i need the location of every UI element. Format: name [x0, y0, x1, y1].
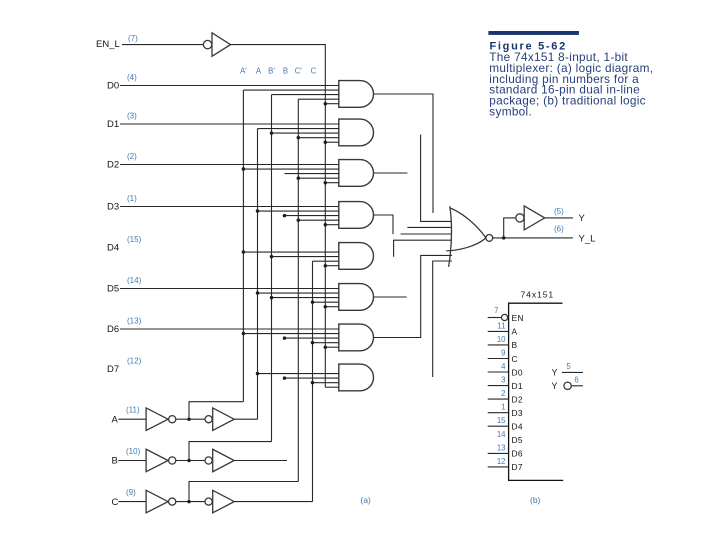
- svg-text:13: 13: [497, 443, 506, 452]
- svg-text:(a): (a): [361, 495, 372, 505]
- svg-text:D1: D1: [107, 119, 119, 130]
- junction on rail x=298.3 gate 3: [297, 218, 301, 222]
- symbol pin 1 stub: [488, 412, 509, 414]
- symbol pin 10 stub: [488, 344, 509, 346]
- svg-text:Y_L: Y_L: [579, 234, 596, 245]
- wire D6 to AND gate: [120, 328, 339, 330]
- inverter C1: [146, 490, 168, 512]
- symbol pin 11 stub: [488, 330, 509, 332]
- wire U5 entry to NOR input 4: [401, 233, 453, 235]
- symbol pin 9 stub: [488, 358, 509, 360]
- inverter U1 input bubble: [203, 40, 211, 48]
- figure heading bar: [488, 31, 579, 35]
- svg-text:C: C: [512, 354, 518, 364]
- svg-text:Y: Y: [552, 367, 558, 377]
- svg-text:(3): (3): [127, 112, 137, 121]
- buffer C2 input bubble: [205, 498, 212, 505]
- buffer B2: [213, 449, 235, 472]
- svg-text:Y: Y: [552, 381, 558, 391]
- wire select tap 1 to U6: [243, 251, 338, 253]
- svg-text:(4): (4): [127, 73, 137, 82]
- wire C true to rail: [234, 501, 312, 503]
- junction on rail x=284.5 gate 6: [283, 336, 287, 340]
- junction EN rail gate 4: [324, 264, 328, 268]
- buffer C2: [213, 490, 235, 512]
- wire select tap 1 to U3: [258, 128, 339, 130]
- junction EN rail gate 6: [324, 345, 328, 349]
- wire EN tap to U5: [325, 224, 339, 226]
- svg-text:14: 14: [497, 430, 506, 439]
- AND gate U5 (D3 term): [339, 202, 374, 229]
- junction EN rail gate 2: [324, 181, 328, 185]
- AND gate U8 (D6 term): [339, 324, 374, 351]
- wire A true to rail: [234, 418, 257, 420]
- junction EN rail gate 0: [324, 102, 328, 106]
- svg-text:(7): (7): [128, 34, 138, 43]
- svg-text:(15): (15): [127, 235, 142, 244]
- inverter B1: [146, 449, 168, 472]
- svg-text:B′: B′: [268, 67, 275, 76]
- symbol box (no right edge): [509, 303, 564, 480]
- svg-text:D3: D3: [107, 202, 119, 213]
- wire EN tap to U2: [325, 103, 339, 105]
- junction on rail x=243.4 gate 6: [242, 332, 246, 336]
- wire A&#8242; rail vertical: [242, 90, 244, 402]
- wire B input: [118, 460, 146, 462]
- wire A input: [118, 418, 146, 420]
- wire select tap 2 to U5: [285, 215, 339, 217]
- svg-text:7: 7: [494, 306, 498, 315]
- svg-text:EN_L: EN_L: [96, 39, 120, 50]
- wire EN rail (U1 out, right then down to AND gates): [231, 45, 326, 388]
- inverter A1: [146, 408, 168, 431]
- buffer B2 input bubble: [205, 457, 212, 464]
- junction on rail x=257.5 gate 3: [256, 209, 260, 213]
- symbol pin 15 stub: [488, 425, 509, 427]
- AND gate U4 (D2 term): [339, 160, 374, 187]
- wire select tap 3 to U5: [298, 219, 339, 221]
- junction on rail x=271.5 gate 4: [270, 255, 274, 259]
- inverter U11 input bubble: [516, 214, 524, 222]
- svg-text:(1): (1): [127, 194, 137, 203]
- wire U2 out (D0 term) right+down: [374, 94, 433, 213]
- svg-text:(b): (b): [530, 495, 541, 505]
- wire select tap 2 to U4: [285, 173, 339, 175]
- junction on rail x=257.5 gate 5: [256, 291, 260, 295]
- svg-text:2: 2: [501, 389, 505, 398]
- svg-text:A: A: [512, 327, 518, 337]
- junction on rail x=243.4 gate 4: [242, 250, 246, 254]
- svg-text:(2): (2): [127, 152, 137, 161]
- junction node C&#8242;: [187, 500, 191, 504]
- buffer A2 input bubble: [205, 416, 212, 423]
- wire C&#8242; riser to rail: [189, 482, 298, 502]
- wire branch up to inverter U11: [504, 218, 516, 238]
- NOR gate U10 body: [446, 208, 486, 251]
- wire select tap 1 to U5: [258, 210, 339, 212]
- wire D3 to AND gate: [120, 206, 339, 208]
- svg-text:symbol.: symbol.: [489, 104, 532, 118]
- wire U4 entry to NOR input 3: [407, 226, 452, 228]
- svg-text:D6: D6: [512, 449, 523, 459]
- junction EN rail gate 3: [324, 223, 328, 227]
- junction node Y_L: [502, 236, 506, 240]
- junction node B&#8242;: [187, 459, 191, 463]
- AND gate U2 (D0 term): [339, 81, 374, 108]
- svg-text:(10): (10): [126, 447, 141, 456]
- wire select tap 1 to U2: [243, 89, 338, 91]
- wire U11 out to Y: [545, 217, 573, 219]
- svg-text:(6): (6): [554, 225, 564, 234]
- svg-text:D7: D7: [512, 462, 523, 472]
- symbol pin 6 line: [571, 385, 583, 387]
- svg-text:9: 9: [501, 349, 505, 358]
- svg-text:A: A: [112, 414, 119, 425]
- symbol pin 5 line: [562, 371, 583, 373]
- wire B&#8242; node: [176, 460, 205, 462]
- wire B&#8242; riser to rail: [189, 442, 272, 461]
- wire D2 to AND gate: [120, 164, 339, 166]
- svg-text:3: 3: [501, 376, 505, 385]
- wire A&#8242; riser to rail: [189, 402, 243, 420]
- svg-text:5: 5: [566, 362, 571, 371]
- wire select tap 3 to U7: [313, 301, 339, 303]
- wire select tap 3 to U6: [313, 260, 339, 262]
- junction on rail x=271.5 gate 5: [270, 296, 274, 300]
- NOR gate U10 input edge arc: [449, 206, 452, 267]
- svg-text:D5: D5: [512, 435, 523, 445]
- svg-text:D5: D5: [107, 284, 119, 295]
- symbol Y_L bubble: [564, 382, 571, 389]
- wire select tap 2 to U9: [285, 377, 339, 379]
- wire U5 out (D3 term) right+down: [374, 215, 393, 234]
- wire U6 riser to NOR input 5: [394, 240, 452, 257]
- svg-text:(13): (13): [127, 317, 142, 326]
- inverter U11 (output buffer): [524, 206, 545, 230]
- junction on rail x=312.5 gate 6: [311, 341, 315, 345]
- junction on rail x=271.5 gate 1: [270, 131, 274, 135]
- junction on rail x=243.4 gate 2: [242, 167, 246, 171]
- svg-text:D0: D0: [512, 367, 523, 377]
- svg-text:A: A: [256, 67, 262, 76]
- wire D1 to AND gate: [120, 123, 339, 125]
- svg-text:10: 10: [497, 335, 506, 344]
- symbol pin 2 stub: [488, 398, 509, 400]
- svg-text:D1: D1: [512, 381, 523, 391]
- svg-text:(5): (5): [554, 207, 564, 216]
- wire select tap 3 to U3: [298, 137, 339, 139]
- junction on rail x=298.3 gate 2: [297, 176, 301, 180]
- wire U3 riser to NOR input 2: [421, 135, 452, 222]
- AND gate U9 (D7 term): [339, 364, 374, 391]
- svg-text:D0: D0: [107, 81, 119, 92]
- svg-text:(12): (12): [127, 357, 142, 366]
- wire EN tap to U9: [325, 386, 339, 388]
- junction on rail x=284.5 gate 7: [283, 376, 287, 380]
- AND gate U6 (D4 term): [339, 243, 374, 270]
- svg-text:74x151: 74x151: [521, 290, 555, 300]
- svg-text:D4: D4: [512, 422, 523, 432]
- wire C rail vertical: [312, 261, 314, 501]
- wire A rail vertical: [257, 129, 259, 420]
- inverter B1 output bubble: [169, 457, 176, 464]
- symbol pin 4 stub: [488, 371, 509, 373]
- svg-text:15: 15: [497, 416, 506, 425]
- wire select tap 1 to U8: [243, 333, 338, 335]
- wire U4 out stub (D2 term): [374, 172, 408, 174]
- svg-text:(9): (9): [126, 488, 136, 497]
- junction EN rail gate 5: [324, 305, 328, 309]
- wire B true stub: [234, 460, 287, 462]
- wire select tap 2 to U2: [272, 94, 339, 96]
- symbol pin 7 stub: [488, 317, 502, 319]
- wire EN_L input: [122, 44, 203, 46]
- wire select tap 1 to U4: [243, 168, 338, 170]
- wire select tap 2 to U6: [272, 256, 339, 258]
- symbol EN bubble: [502, 314, 508, 320]
- wire EN tap to U6: [325, 265, 339, 267]
- wire D5 to AND gate: [120, 288, 339, 290]
- wire C input: [118, 501, 146, 503]
- wire select tap 2 to U8: [285, 337, 339, 339]
- wire U7 out stub (D5 term): [374, 296, 407, 298]
- svg-text:D6: D6: [107, 324, 119, 335]
- svg-text:(11): (11): [126, 406, 140, 415]
- inverter A1 output bubble: [169, 416, 176, 423]
- svg-text:D2: D2: [512, 394, 523, 404]
- AND gate U3 (D1 term): [339, 119, 374, 146]
- AND gate U7 (D5 term): [339, 284, 374, 311]
- buffer A2: [213, 408, 235, 431]
- junction on rail x=284.5 gate 3: [283, 214, 287, 218]
- svg-text:D4: D4: [107, 243, 119, 254]
- junction on rail x=298.3 gate 1: [297, 136, 301, 140]
- wire B&#8242; rail vertical: [271, 95, 273, 442]
- inverter C1 output bubble: [169, 498, 176, 505]
- wire select tap 2 to U7: [272, 297, 339, 299]
- wire select tap 3 to U8: [313, 342, 339, 344]
- wire select tap 1 to U9: [258, 373, 339, 375]
- svg-text:B: B: [283, 67, 288, 76]
- wire select tap 3 to U4: [298, 177, 339, 179]
- inverter U1 (EN buffer): [212, 33, 231, 57]
- svg-text:Y: Y: [579, 213, 586, 224]
- wire EN tap to U7: [325, 306, 339, 308]
- svg-text:6: 6: [574, 376, 578, 385]
- svg-text:C: C: [311, 67, 317, 76]
- wire Y_L net (NOR out to Y_L): [493, 237, 573, 239]
- wire EN tap to U4: [325, 182, 339, 184]
- junction EN rail gate 1: [324, 140, 328, 144]
- svg-text:B: B: [512, 340, 518, 350]
- wire U9 riser to NOR input 8: [433, 261, 452, 377]
- junction node A&#8242;: [187, 417, 191, 421]
- svg-text:12: 12: [497, 457, 506, 466]
- svg-text:C′: C′: [295, 67, 303, 76]
- wire select tap 1 to U7: [258, 292, 339, 294]
- svg-text:1: 1: [501, 403, 505, 412]
- svg-text:(14): (14): [127, 276, 142, 285]
- wire select tap 2 to U3: [272, 132, 339, 134]
- wire C&#8242; node: [176, 501, 205, 503]
- wire D0 to AND gate: [120, 85, 339, 87]
- svg-text:D2: D2: [107, 160, 119, 171]
- svg-text:EN: EN: [512, 313, 524, 323]
- symbol pin 12 stub: [488, 466, 509, 468]
- wire U8 out (D6 term) right+up to NOR input 7: [374, 255, 452, 337]
- svg-text:A′: A′: [240, 67, 247, 76]
- symbol pin 13 stub: [488, 452, 509, 454]
- wire EN tap to U3: [325, 141, 339, 143]
- wire EN tap to U8: [325, 346, 339, 348]
- wire select tap 3 to U2: [298, 98, 339, 100]
- svg-text:B: B: [112, 456, 118, 467]
- wire select tap 3 to U9: [313, 382, 339, 384]
- svg-text:D3: D3: [512, 408, 523, 418]
- wire A&#8242; node: [176, 418, 205, 420]
- junction on rail x=257.5 gate 7: [256, 372, 260, 376]
- NOR gate U10 output bubble: [486, 235, 493, 242]
- junction on rail x=312.5 gate 7: [311, 381, 315, 385]
- junction on rail x=312.5 gate 5: [311, 300, 315, 304]
- wire C&#8242; rail vertical: [297, 99, 299, 481]
- svg-text:11: 11: [497, 321, 505, 330]
- svg-text:4: 4: [501, 362, 506, 371]
- svg-text:C: C: [112, 497, 119, 508]
- svg-text:D7: D7: [107, 364, 119, 375]
- symbol pin 3 stub: [488, 385, 509, 387]
